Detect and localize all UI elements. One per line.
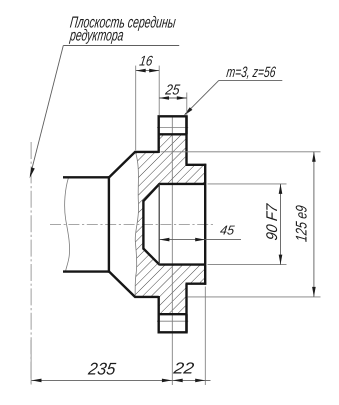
dim 90 F7 extension bottom [208,264,287,266]
svg-text:25: 25 [164,83,182,99]
gear mid-plane line [171,116,173,385]
hatched section area of gear body [135,134,205,314]
dim 25 line [159,97,187,99]
shaft top edge [63,176,109,178]
horizontal center line (axis) [50,223,214,225]
reducer mid-plane dash-dot line [30,142,32,385]
svg-text:16: 16 [138,53,153,69]
dim 25 extension right [186,93,188,116]
dim 125 e9 extension top [161,151,321,153]
svg-text:90 F7: 90 F7 [264,202,281,242]
gear right face [204,164,206,285]
leader shelf [63,45,179,47]
dim 16 extension right [158,66,160,116]
cone-cylinder tangency line [158,184,160,265]
dim 22 arrows [173,379,183,383]
top root line [158,133,188,135]
svg-text:125 e9: 125 e9 [293,204,310,243]
dim 125 e9 line [313,152,315,297]
pitch line, top tooth [157,127,188,129]
bore cone upper slant [143,184,159,202]
gear note leader [185,80,219,114]
dim 90 F7 arrows [279,184,283,194]
flange top edge (d125) [134,151,158,153]
dim 125 e9 arrows [312,152,316,162]
bore cone end face [142,200,144,249]
dim 235/22 line [32,379,211,381]
shaft bottom edge [63,270,109,272]
bore top edge [159,183,205,185]
dim 16 line [136,70,160,72]
dim 90 F7 line [280,184,282,265]
shaft break wavy line [65,177,70,271]
local-section break wavy line [135,152,139,297]
dim 90 F7 extension top [208,183,287,185]
svg-text:45: 45 [219,222,236,237]
svg-text:m=3, z=56: m=3, z=56 [226,64,278,81]
lower step edge [186,283,207,285]
hub cone upper outline [109,152,135,178]
flange bottom edge (d125) [134,296,158,298]
bottom tooth outline [159,314,187,332]
svg-text:редуктора: редуктора [68,26,124,44]
bore cone lower slant [143,248,159,264]
dim 16 extension left [135,66,137,151]
bottom root line [158,313,188,315]
svg-text:235: 235 [86,359,117,378]
leader arrowhead [30,167,35,178]
top tooth outline [159,116,187,134]
dim 235/22 extension right [204,287,206,386]
rim left face lower [157,296,159,315]
shaft end face [108,176,110,272]
dim 25 arrows [159,96,169,100]
rim left face upper [157,133,159,153]
svg-text:22: 22 [171,360,195,378]
pitch line, bottom tooth [157,320,188,322]
leader line to plane [30,46,63,176]
hub cone lower outline [109,271,135,297]
dim 16 arrows [136,69,146,73]
tooth right face upper [185,116,187,165]
dim 235 arrows [32,379,42,383]
dim 45 line [159,239,241,241]
dim 45 arrows [159,238,169,242]
tooth right face lower [185,284,187,333]
gear note arrowhead [184,107,193,115]
upper step edge [186,164,207,166]
dim 125 e9 extension bottom [188,296,321,298]
gear note shelf [219,79,282,81]
bore bottom edge [159,263,205,265]
